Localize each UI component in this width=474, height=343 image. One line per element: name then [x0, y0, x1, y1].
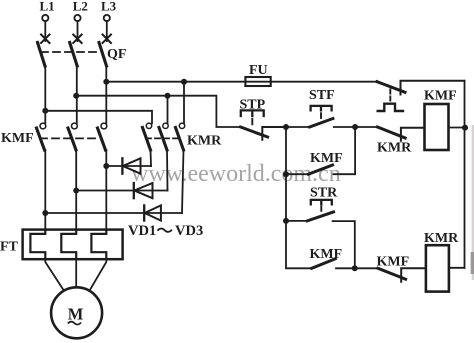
svg-text:L2: L2: [73, 0, 88, 14]
pushbutton STR actuator: [311, 200, 332, 204]
svg-text:M: M: [68, 304, 84, 323]
wire phase1 QF to KMF contact: [44, 66, 46, 123]
wire FT to motor mid: [75, 259, 77, 287]
wire L1 drop to QF: [44, 21, 46, 41]
junction diode VD2: [73, 188, 79, 194]
wire phase3 KMF to FT: [105, 150, 107, 230]
wire STR right down: [333, 221, 355, 268]
breaker QF pole 1 blade: [38, 43, 46, 67]
junction phase2 mid rail: [73, 93, 79, 99]
diode VD1: [121, 158, 123, 173]
contactor KMR pole 3: [179, 123, 184, 128]
breaker QF linkage dashed: [41, 51, 101, 53]
node L2 terminal: [74, 15, 80, 21]
contact KMF self-hold wire left: [286, 173, 308, 175]
wire phase2 KMF to FT: [75, 150, 77, 230]
pushbutton STP NC contact blade: [241, 127, 268, 137]
wire node A branch vertical: [286, 127, 312, 268]
contact KMR NC interlock blade: [378, 127, 406, 138]
breaker QF pole 3 cross: [103, 35, 112, 44]
wire diode VD3 row: [45, 212, 182, 214]
diode VD2: [133, 183, 135, 198]
junction STR KMF NC: [352, 265, 358, 271]
thermal relay FT box: [23, 230, 123, 260]
junction phase3 top rail: [103, 79, 109, 85]
diode VD3: [143, 205, 145, 220]
junction diode VD1: [103, 163, 109, 169]
wire KMF self-hold to node B line: [334, 173, 356, 175]
wire control feed top rail from phase3: [106, 81, 377, 83]
pushbutton STP stem dashed: [251, 119, 253, 125]
contactor KMF pole 1: [40, 123, 46, 129]
wire STF to node B: [334, 126, 355, 128]
mushroom actuator head: [378, 104, 403, 111]
wire KMR pole3 to diode VD3: [182, 150, 184, 213]
contact KMF NO in KMR path blade: [312, 259, 336, 269]
svg-text:KMF: KMF: [1, 131, 34, 146]
pushbutton STF stem dashed: [320, 113, 322, 118]
svg-text:QF: QF: [107, 47, 126, 62]
pushbutton STP actuator: [241, 110, 264, 116]
svg-text:STP: STP: [240, 98, 266, 113]
wire KMF NO to junction: [336, 267, 378, 269]
wire KMR pole2 to diode VD2: [166, 150, 169, 191]
wire KMR pole3 feed drop: [183, 82, 185, 124]
pushbutton STP terminal: [262, 127, 286, 140]
contactor KMF linkage dashed: [40, 137, 100, 139]
svg-text:KMR: KMR: [187, 134, 222, 149]
svg-text:L3: L3: [101, 0, 117, 14]
svg-text:KMR: KMR: [377, 141, 412, 156]
mushroom stem dashed: [389, 90, 391, 101]
coil KMF: [425, 104, 449, 150]
wire control feed mid from phase2: [76, 96, 240, 127]
coil KMR: [426, 245, 449, 291]
breaker QF pole 2 blade: [70, 43, 78, 67]
wire coil KMF to bus: [449, 127, 465, 129]
svg-text:KMF: KMF: [377, 255, 410, 270]
wire L2 drop to QF: [77, 21, 79, 41]
svg-text:KMF: KMF: [310, 151, 343, 166]
junction node A STR: [283, 218, 289, 224]
pushbutton STF actuator: [311, 106, 332, 110]
contact KMF NC interlock blade: [378, 268, 406, 279]
junction KMR pole2 feed: [165, 93, 171, 99]
wire node A to STF: [286, 126, 310, 128]
node A: [283, 124, 289, 130]
junction phase1: [42, 108, 48, 114]
wire phase1 KMF to FT: [44, 150, 46, 230]
FT heater phase1: [30, 230, 45, 260]
junction diode VD3: [42, 210, 48, 216]
contactor KMR pole 1: [146, 123, 151, 128]
scan artifact right edge: [472, 125, 474, 280]
svg-text:FU: FU: [249, 63, 268, 78]
wire diode VD2 row: [76, 190, 167, 192]
wire phase2 QF to KMF contact: [76, 66, 78, 123]
junction bus coil KMF: [462, 125, 468, 131]
breaker QF pole 1 cross: [41, 35, 50, 44]
wire KMR pole2 feed drop: [167, 96, 169, 124]
wire phase3 QF to KMF contact: [105, 66, 107, 123]
node L1 terminal: [42, 15, 48, 21]
svg-text:VD1: VD1: [128, 223, 156, 239]
wire L3 drop to QF: [106, 21, 108, 41]
svg-text:FT: FT: [0, 240, 19, 255]
wire node B branch vertical: [354, 127, 356, 174]
svg-text:L1: L1: [40, 0, 55, 14]
wire KMR pole1 to diode VD1: [150, 150, 153, 166]
contact KMF NC terminal to coil KMR: [401, 268, 426, 282]
pushbutton STF NO contact blade: [310, 119, 333, 128]
right bus wire: [464, 81, 466, 268]
svg-text:STR: STR: [310, 186, 338, 201]
svg-text:VD3: VD3: [175, 223, 203, 239]
breaker QF pole 3 blade: [99, 43, 107, 67]
contactor KMR pole 2: [163, 123, 168, 128]
mushroom terminal and wire to right bus: [401, 81, 465, 95]
svg-text:KMR: KMR: [424, 231, 459, 246]
wire diode VD1 row: [106, 165, 151, 167]
pushbutton STR stem dashed: [320, 207, 322, 211]
contactor KMR linkage dashed: [146, 137, 181, 139]
wire FT to motor left: [45, 259, 64, 291]
wire KMR pole1 feed from phase1: [45, 111, 152, 124]
pushbutton mushroom NC on top rail blade: [377, 82, 405, 93]
wire coil KMR to bus: [449, 267, 465, 269]
svg-text:KMF: KMF: [424, 89, 457, 104]
contact KMR NC terminal to coil KMF: [401, 128, 425, 141]
svg-text:KMF: KMF: [310, 247, 343, 262]
wire node A2 to STR: [286, 220, 307, 222]
fuse FU: [245, 77, 270, 86]
breaker QF pole 2 cross: [73, 35, 82, 44]
label motor tilde: [68, 322, 81, 325]
motor M circle: [51, 287, 102, 338]
wire FT to motor right: [90, 259, 107, 291]
pushbutton STR NO blade: [307, 212, 333, 221]
contact KMF self-hold NO blade: [308, 165, 332, 174]
contactor KMF pole 3: [101, 123, 107, 129]
FT heater phase2: [61, 230, 76, 260]
contactor KMF pole 2: [72, 123, 78, 129]
FT heater phase3: [91, 230, 106, 260]
junction KMR pole3 feed: [181, 79, 187, 85]
svg-text:STF: STF: [309, 88, 335, 103]
junction node A self-hold: [283, 171, 289, 177]
node L3 terminal: [104, 15, 110, 21]
wire node B to KMR NC: [355, 126, 377, 128]
node B: [352, 124, 358, 130]
